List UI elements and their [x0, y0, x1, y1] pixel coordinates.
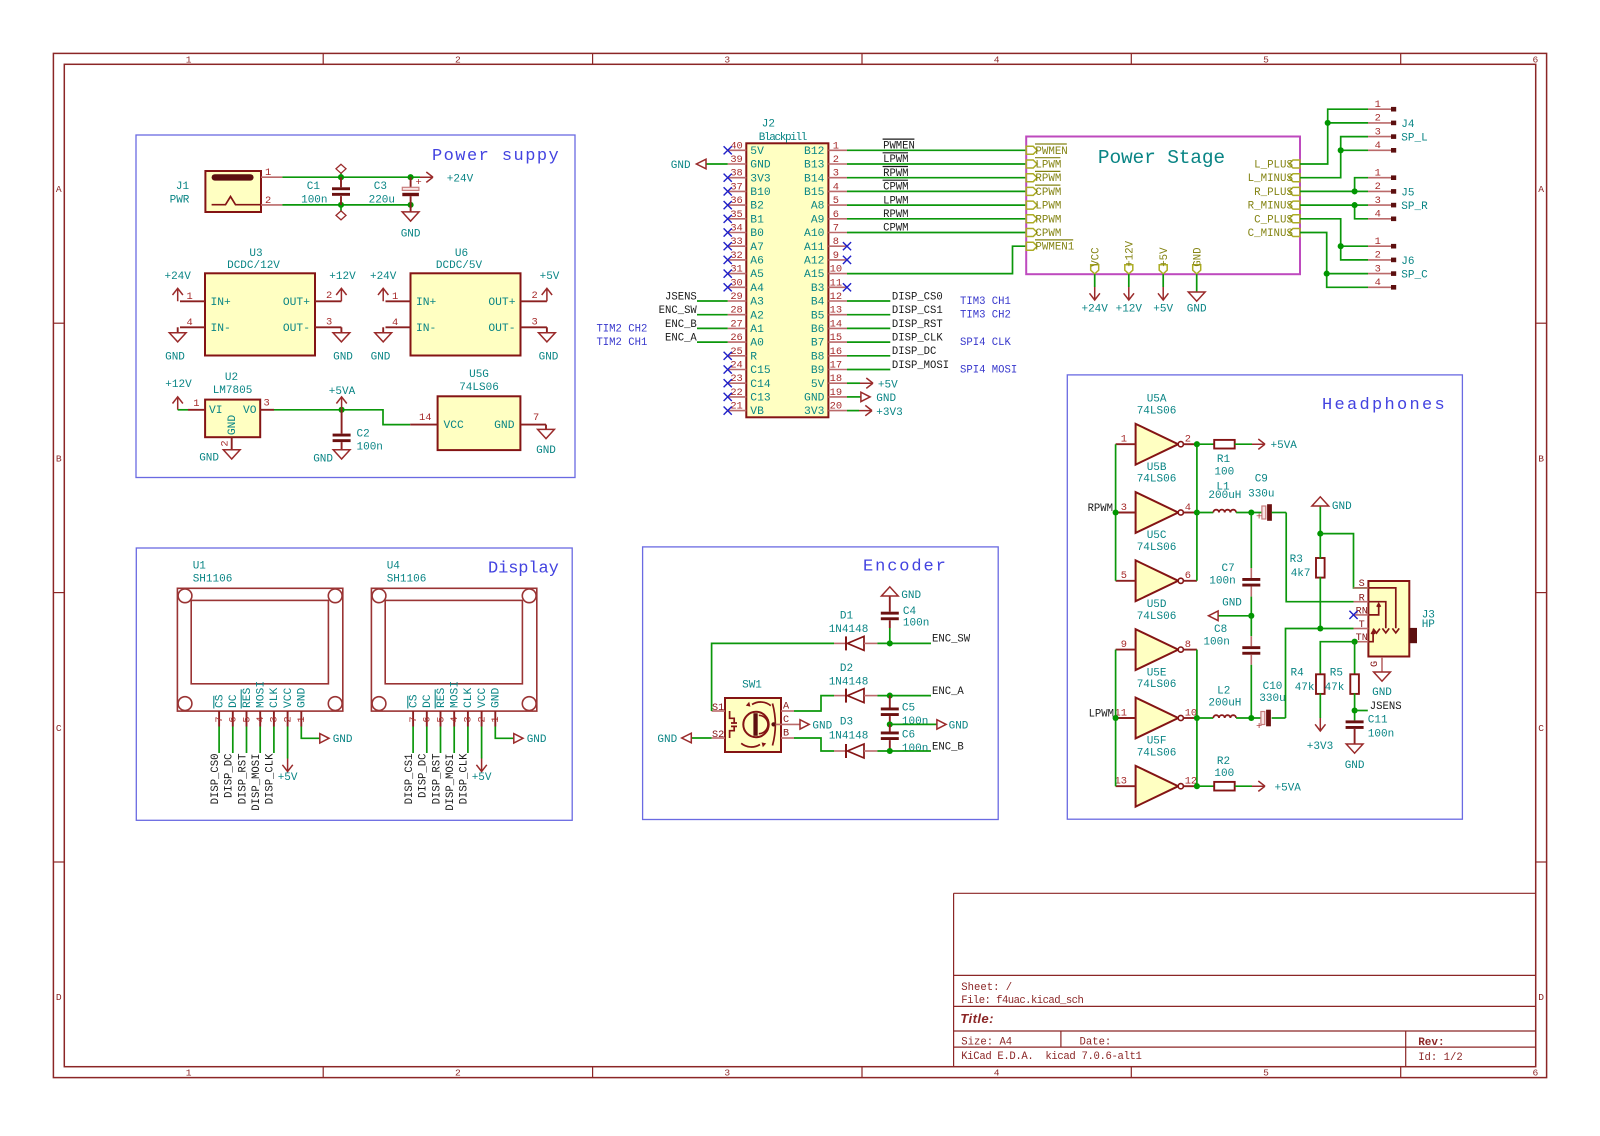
diode D2 1N4148 [834, 695, 846, 697]
svg-text:GND: GND [227, 415, 239, 436]
svg-text:C_PLUS: C_PLUS [1254, 214, 1293, 226]
svg-text:74LS06: 74LS06 [459, 382, 499, 394]
svg-text:C14: C14 [750, 379, 771, 391]
svg-text:37: 37 [730, 181, 742, 193]
J3 pin R [1354, 601, 1369, 603]
svg-text:20: 20 [830, 401, 842, 413]
svg-text:DISP_CS1: DISP_CS1 [404, 754, 416, 805]
svg-text:A: A [783, 702, 790, 713]
J3 pin TN [1354, 641, 1369, 643]
svg-text:ENC_SW: ENC_SW [932, 634, 971, 646]
wire J2 pin17 DISP_MOSI [847, 369, 890, 371]
J2 pin 27 A1 [728, 327, 747, 329]
wire J4 pin2 branch [1328, 122, 1368, 124]
svg-text:9: 9 [1121, 639, 1127, 651]
svg-text:GND: GND [494, 420, 515, 432]
wire J2 pin4 to Power Stage CPWM [847, 190, 1026, 192]
svg-text:U3: U3 [249, 248, 262, 260]
net label JSENS at J2 pin 29 [697, 300, 728, 302]
svg-text:6: 6 [1533, 54, 1539, 65]
svg-text:DISP_CS1: DISP_CS1 [892, 305, 943, 317]
U5E output pin 10 [1183, 717, 1197, 719]
wire U4 GND [495, 727, 514, 739]
svg-text:DC: DC [422, 694, 434, 708]
svg-text:JSENS: JSENS [1370, 701, 1402, 713]
junction at C3 bottom [408, 202, 414, 208]
junction R3 GND branch [1317, 531, 1323, 537]
svg-text:2: 2 [455, 54, 461, 65]
svg-text:A11: A11 [804, 242, 825, 254]
capacitor C6 [889, 724, 891, 731]
sheet pin PWMEN1 [1026, 242, 1037, 250]
U1 pin 4 MOSI [259, 711, 261, 726]
J3 plug body [1409, 628, 1417, 643]
svg-text:C5: C5 [902, 703, 915, 715]
U6 pin 2 OUT+ [521, 300, 547, 302]
svg-text:IN+: IN+ [416, 297, 437, 309]
wire joining outputs 8-10-12 [1196, 650, 1198, 787]
ground at SW1 pin C [800, 720, 809, 729]
ground symbol right in encoder [937, 720, 946, 729]
svg-text:R_MINUS: R_MINUS [1248, 201, 1293, 213]
svg-text:21: 21 [730, 401, 742, 413]
svg-text:74LS06: 74LS06 [1137, 542, 1177, 554]
svg-text:3: 3 [833, 168, 839, 180]
svg-text:5: 5 [435, 716, 447, 722]
svg-text:D1: D1 [840, 610, 854, 622]
svg-text:4: 4 [833, 181, 839, 193]
svg-text:26: 26 [730, 332, 742, 344]
wire R3 top to GND [1319, 506, 1321, 559]
svg-text:2: 2 [282, 716, 294, 722]
U1 pin 7 CS [218, 711, 220, 726]
svg-text:22: 22 [730, 387, 742, 399]
svg-text:+3V3: +3V3 [876, 407, 902, 419]
svg-text:LPWM: LPWM [1035, 201, 1061, 213]
J1 pin 2 [261, 204, 282, 206]
svg-text:3: 3 [724, 1068, 730, 1079]
svg-text:C_MINUS: C_MINUS [1248, 228, 1293, 240]
svg-text:32: 32 [730, 250, 742, 262]
svg-text:J1: J1 [176, 181, 190, 193]
svg-text:+5V: +5V [1153, 303, 1173, 315]
svg-text:1N4148: 1N4148 [829, 624, 869, 636]
svg-text:DC: DC [228, 694, 240, 708]
svg-text:17: 17 [830, 360, 842, 372]
J5 pin 3 [1368, 204, 1391, 206]
wire R_PLUS to J5 [1300, 178, 1368, 192]
sheet pin GND bottom [1193, 265, 1201, 274]
svg-text:A6: A6 [750, 256, 764, 268]
net label ENC_SW at J2 pin 28 [697, 314, 728, 316]
ground at U2 pin 2 [223, 450, 240, 459]
J2 pin 25 R [728, 355, 747, 357]
ground symbol mid headphones [1209, 611, 1219, 621]
svg-text:100: 100 [1214, 768, 1234, 780]
U3 pin 1 IN+ [180, 300, 205, 302]
J2 pin 16 B8 [828, 355, 847, 357]
svg-text:JSENS: JSENS [665, 291, 697, 303]
svg-text:OUT+: OUT+ [283, 297, 310, 309]
U5G pin 7 GND [520, 424, 546, 426]
svg-text:B7: B7 [811, 338, 825, 350]
svg-text:4: 4 [187, 317, 193, 329]
svg-text:GND: GND [297, 687, 309, 708]
svg-text:DISP_DC: DISP_DC [224, 754, 236, 799]
svg-text:DISP_CS0: DISP_CS0 [210, 754, 222, 805]
svg-text:34: 34 [730, 223, 742, 235]
capacitor C1 [340, 177, 342, 187]
capacitor C4 [889, 628, 891, 643]
ground below C2 [333, 450, 350, 459]
J2 pin 30 A4 [728, 286, 747, 288]
svg-text:A2: A2 [750, 310, 764, 322]
svg-text:D: D [56, 992, 62, 1003]
svg-text:6: 6 [1533, 1068, 1539, 1079]
svg-text:5: 5 [241, 716, 253, 722]
svg-text:IN-: IN- [211, 323, 231, 335]
sheet pin RPWM [1026, 174, 1037, 182]
capacitor C2 [341, 410, 343, 434]
svg-text:DISP_DC: DISP_DC [418, 754, 430, 799]
U4 pin 1 GND [494, 711, 496, 726]
svg-text:SH1106: SH1106 [193, 574, 233, 586]
ground symbol above C4 [881, 587, 898, 596]
sheet pin R_MINUS [1289, 201, 1300, 209]
J2 pin 10 A15 [828, 273, 847, 275]
ground symbol at J2 pin 19 [861, 392, 870, 401]
frame column ticks top [322, 53, 324, 64]
J2 pin 4 B15 [828, 190, 847, 192]
svg-text:GND: GND [527, 734, 547, 746]
svg-text:VI: VI [209, 405, 223, 417]
svg-text:B0: B0 [750, 228, 764, 240]
svg-text:DISP_CLK: DISP_CLK [892, 333, 944, 345]
svg-text:C6: C6 [902, 730, 915, 742]
U2 pin 3 VO [260, 409, 274, 411]
wire U1 pin 7 [218, 727, 220, 754]
svg-text:100n: 100n [902, 716, 928, 728]
DC-DC converter U3 DCDC/12V [205, 273, 315, 355]
svg-text:100n: 100n [301, 195, 327, 207]
U4 pin 5 RES [440, 711, 442, 726]
J6 pin 2 [1368, 259, 1391, 261]
svg-text:D3: D3 [840, 717, 853, 729]
svg-text:C3: C3 [374, 181, 387, 193]
svg-text:DISP_CLK: DISP_CLK [459, 753, 471, 805]
svg-text:3: 3 [724, 54, 730, 65]
J1 pin 1 [261, 176, 282, 178]
svg-text:4k7: 4k7 [1291, 568, 1311, 580]
junction at L1 out [1248, 509, 1254, 515]
svg-text:R: R [750, 351, 757, 363]
svg-text:Power suppy: Power suppy [432, 147, 560, 166]
SW1 pin A [781, 710, 794, 712]
U3 pin 3 OUT- [315, 326, 341, 328]
svg-text:L_PLUS: L_PLUS [1254, 160, 1293, 172]
OLED display U1 SH1106 [177, 588, 342, 711]
svg-text:3: 3 [1375, 126, 1381, 138]
svg-text:47k: 47k [1295, 682, 1315, 694]
wire GND rail from J1 pin2 [282, 204, 410, 206]
svg-text:1: 1 [186, 54, 192, 65]
wire J2 pin5 to Power Stage LPWM [847, 204, 1026, 206]
svg-text:100n: 100n [902, 743, 928, 755]
inverter U5F 74LS06 [1136, 766, 1179, 807]
U1 pin 1 GND [300, 711, 302, 726]
svg-text:S1: S1 [712, 703, 724, 714]
svg-text:Display: Display [488, 560, 559, 579]
svg-text:GND: GND [657, 734, 677, 746]
svg-text:GND: GND [371, 351, 391, 363]
power symbol +3V3 at J2 pin 20 [859, 405, 872, 415]
svg-text:A1: A1 [750, 324, 764, 336]
power symbol +24V below sheet [1090, 287, 1100, 300]
svg-text:+: + [1256, 721, 1262, 733]
svg-text:5: 5 [1263, 1068, 1269, 1079]
svg-text:C11: C11 [1368, 714, 1388, 726]
U5A output pin 2 [1183, 443, 1197, 445]
svg-text:8: 8 [833, 236, 839, 248]
svg-text:CPWM: CPWM [1035, 228, 1061, 240]
svg-text:B4: B4 [811, 297, 825, 309]
svg-text:B1: B1 [750, 214, 764, 226]
U3 pin 2 OUT+ [315, 300, 341, 302]
svg-text:DISP_MOSI: DISP_MOSI [251, 754, 263, 811]
wire +12V stub [1128, 274, 1130, 287]
svg-text:CPWM: CPWM [883, 182, 908, 194]
svg-text:J5: J5 [1401, 187, 1414, 199]
wire J6 pin3 branch [1327, 273, 1368, 275]
svg-text:+5V: +5V [278, 772, 298, 784]
svg-text:2: 2 [532, 290, 538, 302]
sheet pin CPWM [1026, 229, 1037, 237]
power symbol +12V at U2 [173, 397, 183, 410]
svg-text:3V3: 3V3 [750, 173, 771, 185]
resistor R1 100 [1214, 440, 1235, 449]
J2 pin 18 5V [828, 382, 847, 384]
svg-text:3: 3 [1375, 195, 1381, 207]
wire J2 pin1 to Power Stage PWMEN [847, 149, 1026, 151]
svg-text:CLK: CLK [463, 687, 475, 708]
svg-text:1: 1 [186, 1068, 192, 1079]
power symbol +5V at U4 [476, 759, 486, 772]
wire U1 pin 3 [273, 727, 275, 754]
wire D1 to ENC_SW label [877, 642, 931, 644]
DC-DC converter U6 DCDC/5V [411, 273, 521, 355]
J5 pin 4 [1368, 218, 1391, 220]
svg-text:30: 30 [730, 277, 742, 289]
svg-text:U2: U2 [225, 372, 238, 384]
J2 pin 31 A5 [728, 273, 747, 275]
svg-text:+: + [1256, 512, 1262, 524]
U5D output pin 8 [1183, 649, 1197, 651]
dangling wire stub below C1 [340, 205, 342, 211]
junction at C1 top [338, 174, 344, 180]
svg-text:SH1106: SH1106 [387, 574, 427, 586]
svg-text:1: 1 [1375, 236, 1381, 248]
sheet pin LPWM [1026, 201, 1037, 209]
svg-text:19: 19 [830, 387, 842, 399]
U5B input pin 3 [1116, 512, 1136, 514]
svg-text:B3: B3 [811, 283, 825, 295]
svg-text:2: 2 [833, 154, 839, 166]
svg-text:S: S [1359, 579, 1365, 590]
J2 pin 20 3V3 [828, 410, 847, 412]
svg-text:6: 6 [422, 716, 434, 722]
svg-text:HP: HP [1422, 619, 1436, 631]
sheet pin C_MINUS [1289, 229, 1300, 237]
svg-text:PWR: PWR [170, 194, 190, 206]
U1 pin 5 RES [246, 711, 248, 726]
ground below C11 [1346, 744, 1363, 753]
junction headphone GND row [1248, 613, 1254, 619]
svg-text:100n: 100n [1209, 576, 1235, 588]
svg-text:GND: GND [876, 393, 896, 405]
svg-text:11: 11 [830, 277, 842, 289]
svg-text:B: B [783, 729, 789, 740]
wire U4 pin 7 [412, 727, 414, 754]
J2 pin 36 B2 [728, 204, 747, 206]
svg-text:VO: VO [243, 405, 257, 417]
svg-text:PWMEN1: PWMEN1 [1035, 242, 1074, 254]
J2 pin 21 VB [728, 410, 747, 412]
svg-text:U5F: U5F [1147, 736, 1167, 748]
wire GND stub [1196, 274, 1198, 292]
svg-text:330u: 330u [1248, 489, 1274, 501]
svg-text:ENC_A: ENC_A [665, 333, 697, 345]
junction LPWM input [1113, 715, 1119, 721]
ground at U5G pin 7 [545, 425, 547, 430]
U5F input pin 13 [1116, 785, 1136, 787]
svg-text:B9: B9 [811, 365, 825, 377]
svg-text:DCDC/5V: DCDC/5V [436, 260, 483, 272]
J2 pin 2 B13 [828, 163, 847, 165]
svg-text:D2: D2 [840, 663, 853, 675]
svg-text:LPWM: LPWM [883, 195, 908, 207]
svg-text:VB: VB [750, 406, 764, 418]
J2 pin 11 B3 [828, 286, 847, 288]
J2 pin 14 B6 [828, 327, 847, 329]
svg-text:5: 5 [1263, 54, 1269, 65]
sheet pin R_PLUS [1289, 187, 1300, 195]
svg-text:R3: R3 [1290, 554, 1303, 566]
svg-text:1: 1 [490, 716, 502, 722]
svg-text:GND: GND [199, 452, 219, 464]
svg-text:+5VA: +5VA [1271, 440, 1298, 452]
junction output 4 [1194, 509, 1200, 515]
J4 pin 1 [1368, 108, 1391, 110]
wire J2 pin16 DISP_DC [847, 355, 890, 357]
svg-text:OUT-: OUT- [283, 323, 310, 335]
svg-text:SP_L: SP_L [1401, 133, 1427, 145]
wire R_MINUS to J5 [1300, 205, 1368, 219]
ground symbol above R3 [1312, 497, 1329, 506]
sheet pin RPWM [1026, 215, 1037, 223]
wire J2 pin18 +5V [847, 382, 860, 384]
junction at L2 out [1248, 715, 1254, 721]
U6 pin 4 IN- [386, 326, 411, 328]
U2 pin 1 VI [188, 409, 205, 411]
svg-text:4: 4 [1375, 277, 1381, 289]
svg-text:9: 9 [833, 250, 839, 262]
svg-text:2: 2 [1375, 250, 1381, 262]
svg-text:TIM3 CH1: TIM3 CH1 [960, 296, 1011, 308]
wire joining inputs 1-3-5 [1115, 444, 1117, 581]
capacitor C8 100n [1250, 616, 1252, 636]
wire C9 to jack R pin [1272, 512, 1287, 514]
svg-text:Blackpill: Blackpill [759, 132, 807, 144]
power symbol +5V below sheet [1158, 287, 1168, 300]
svg-text:OUT-: OUT- [488, 323, 515, 335]
inverter U5C 74LS06 [1136, 560, 1179, 601]
wire J2 pin15 DISP_CLK [847, 341, 890, 343]
svg-text:1: 1 [1375, 168, 1381, 180]
J2 pin 37 B10 [728, 190, 747, 192]
svg-text:100n: 100n [1203, 637, 1229, 649]
Power supply section box [136, 135, 575, 478]
svg-text:2: 2 [476, 716, 488, 722]
svg-text:+24V: +24V [370, 271, 397, 283]
J2 pin 9 A12 [828, 259, 847, 261]
U5F output pin 12 [1183, 785, 1197, 787]
svg-text:1: 1 [193, 398, 199, 410]
sheet pin L_PLUS [1289, 160, 1300, 168]
wire J2 pin14 DISP_RST [847, 327, 890, 329]
svg-text:CS: CS [214, 694, 226, 708]
svg-text:2: 2 [1185, 434, 1191, 446]
svg-text:6: 6 [228, 716, 240, 722]
SW1 pin B [781, 737, 794, 739]
power symbol +5VA [336, 397, 346, 410]
svg-text:2: 2 [220, 440, 232, 446]
diode D3 1N4148 [834, 750, 846, 752]
svg-text:CPWM: CPWM [1035, 187, 1061, 199]
svg-text:GND: GND [333, 734, 353, 746]
sheet pin LPWM [1026, 160, 1037, 168]
J3 jack contact graphics [1368, 588, 1399, 633]
J6 pin 4 [1368, 286, 1391, 288]
svg-text:200uH: 200uH [1208, 698, 1241, 710]
J2 pin 28 A2 [728, 314, 747, 316]
wire to GND symbol [1218, 615, 1251, 617]
svg-text:1N4148: 1N4148 [829, 677, 869, 689]
J2 pin 32 A6 [728, 259, 747, 261]
svg-text:RES: RES [242, 687, 254, 708]
sheet pin VCC bottom [1091, 265, 1099, 274]
svg-text:ENC_A: ENC_A [932, 686, 964, 698]
svg-text:14: 14 [419, 412, 431, 424]
svg-text:B13: B13 [804, 160, 825, 172]
capacitor C10 330u polarized [1261, 712, 1265, 725]
svg-text:PWMEN: PWMEN [883, 141, 915, 153]
svg-text:14: 14 [830, 318, 842, 330]
svg-text:+24V: +24V [1081, 303, 1108, 315]
wire J6 pin1 branch [1341, 245, 1368, 247]
svg-text:D: D [1538, 992, 1544, 1003]
svg-text:+3V3: +3V3 [1307, 741, 1333, 753]
svg-text:DISP_RST: DISP_RST [892, 319, 943, 331]
svg-text:A9: A9 [811, 214, 825, 226]
svg-text:DCDC/12V: DCDC/12V [227, 260, 280, 272]
ground symbol at J2 pin 39 [696, 159, 706, 169]
J2 pin 40 5V [728, 149, 747, 151]
U5C output pin 6 [1183, 580, 1197, 582]
svg-text:Power Stage: Power Stage [1098, 147, 1225, 169]
ground symbol below sheet [1188, 292, 1205, 301]
resistor R5 47k [1350, 674, 1359, 694]
wire J2 pin20 +3V3 [847, 410, 859, 412]
